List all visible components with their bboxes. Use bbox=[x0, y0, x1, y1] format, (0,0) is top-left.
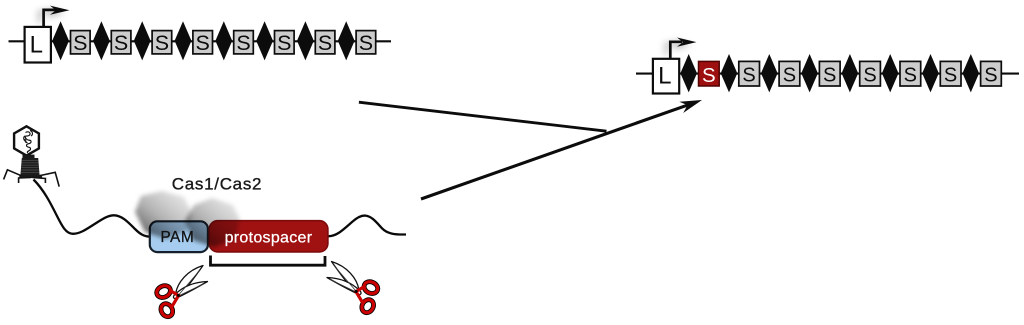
spacer box S3 (new array) bbox=[819, 61, 840, 86]
repeat diamond 3 (old array) bbox=[134, 21, 151, 60]
repeat diamond 5 (old array) bbox=[215, 21, 232, 60]
spacer box S8 (old array) bbox=[356, 31, 376, 54]
newly acquired spacer box S (red) bbox=[699, 61, 720, 86]
repeat diamond 2 (new array) bbox=[721, 54, 738, 92]
repeat diamond 8 (old array) bbox=[338, 21, 355, 60]
leader box L (new array) bbox=[653, 59, 679, 94]
svg-text:S: S bbox=[196, 31, 210, 55]
spacer box S3 (old array) bbox=[152, 31, 172, 54]
svg-text:L: L bbox=[658, 62, 671, 89]
phage neck collar bbox=[23, 155, 35, 159]
phage tail fibers (legs) bbox=[4, 170, 22, 180]
spacer box S6 (old array) bbox=[275, 31, 295, 54]
svg-text:S: S bbox=[359, 31, 373, 55]
Cas1 protein blob bbox=[135, 191, 192, 239]
PAM box bbox=[150, 221, 208, 252]
svg-text:L: L bbox=[30, 32, 43, 59]
repeat diamond 6 (old array) bbox=[256, 21, 273, 60]
spacer box S4 (new array) bbox=[860, 61, 881, 86]
phage tail sheath bbox=[20, 158, 39, 176]
repeat diamond 4 (old array) bbox=[175, 21, 192, 60]
svg-text:S: S bbox=[944, 64, 957, 86]
backbone line of new CRISPR array bbox=[636, 73, 1019, 75]
Cas2 protein blob bbox=[185, 198, 240, 247]
svg-text:S: S bbox=[236, 31, 250, 55]
bacteriophage head (hexagonal capsid) bbox=[14, 126, 39, 155]
svg-text:S: S bbox=[742, 64, 755, 86]
shadow of promoter arrow (new array) bbox=[666, 40, 691, 55]
svg-text:S: S bbox=[277, 31, 291, 55]
protospacer box bbox=[209, 221, 328, 252]
repeat diamond 8 (new array) bbox=[963, 54, 980, 92]
svg-text:S: S bbox=[823, 64, 836, 86]
spacer box S1 (old array) bbox=[71, 31, 91, 54]
svg-text:protospacer: protospacer bbox=[225, 230, 313, 247]
repeat diamond 1 (old array) bbox=[52, 21, 69, 60]
promoter arrow (new array) bbox=[670, 42, 682, 59]
leader box L (old array) bbox=[25, 27, 51, 63]
repeat diamond 2 (old array) bbox=[93, 21, 110, 60]
viral DNA wavy line (phage to PAM) bbox=[34, 180, 150, 237]
svg-text:S: S bbox=[904, 64, 917, 86]
svg-text:S: S bbox=[114, 31, 128, 55]
svg-text:Cas1/Cas2: Cas1/Cas2 bbox=[172, 175, 262, 194]
line from old array converging to integration arrow bbox=[359, 102, 607, 131]
repeat diamond 7 (old array) bbox=[297, 21, 314, 60]
svg-text:S: S bbox=[318, 31, 332, 55]
repeat diamond 1 (new array) bbox=[680, 54, 697, 92]
svg-text:S: S bbox=[702, 64, 716, 87]
excision bracket under protospacer bbox=[211, 256, 326, 266]
svg-text:S: S bbox=[984, 64, 997, 86]
repeat diamond 4 (new array) bbox=[801, 54, 818, 92]
scissors right bbox=[327, 262, 380, 315]
phage genome squiggle inside head bbox=[24, 131, 33, 154]
spacer box S5 (new array) bbox=[900, 61, 921, 86]
svg-text:S: S bbox=[155, 31, 169, 55]
spacer box S5 (old array) bbox=[234, 31, 254, 54]
svg-text:S: S bbox=[863, 64, 876, 86]
integration arrow pointing at new spacer bbox=[421, 105, 688, 199]
svg-text:S: S bbox=[783, 64, 796, 86]
spacer box S6 (new array) bbox=[940, 61, 961, 86]
spacer box S7 (new array) bbox=[981, 61, 1002, 86]
viral DNA wavy line (right of protospacer) bbox=[329, 216, 407, 237]
repeat diamond 6 (new array) bbox=[882, 54, 899, 92]
repeat diamond 5 (new array) bbox=[842, 54, 859, 92]
svg-text:S: S bbox=[73, 31, 87, 55]
svg-text:PAM: PAM bbox=[160, 229, 194, 246]
scissors left bbox=[155, 266, 208, 319]
repeat diamond 7 (new array) bbox=[922, 54, 939, 92]
spacer box S2 (new array) bbox=[779, 61, 800, 86]
repeat diamond 3 (new array) bbox=[761, 54, 778, 92]
spacer box S2 (old array) bbox=[111, 31, 131, 54]
spacer box S4 (old array) bbox=[193, 31, 213, 54]
promoter arrow (old array) bbox=[44, 10, 56, 28]
spacer box S1 (new array) bbox=[739, 61, 760, 86]
phage baseplate bbox=[19, 175, 42, 178]
spacer box S7 (old array) bbox=[315, 31, 335, 54]
backbone line of old CRISPR array bbox=[9, 40, 392, 42]
shadow of promoter arrow (old array) bbox=[40, 8, 66, 23]
